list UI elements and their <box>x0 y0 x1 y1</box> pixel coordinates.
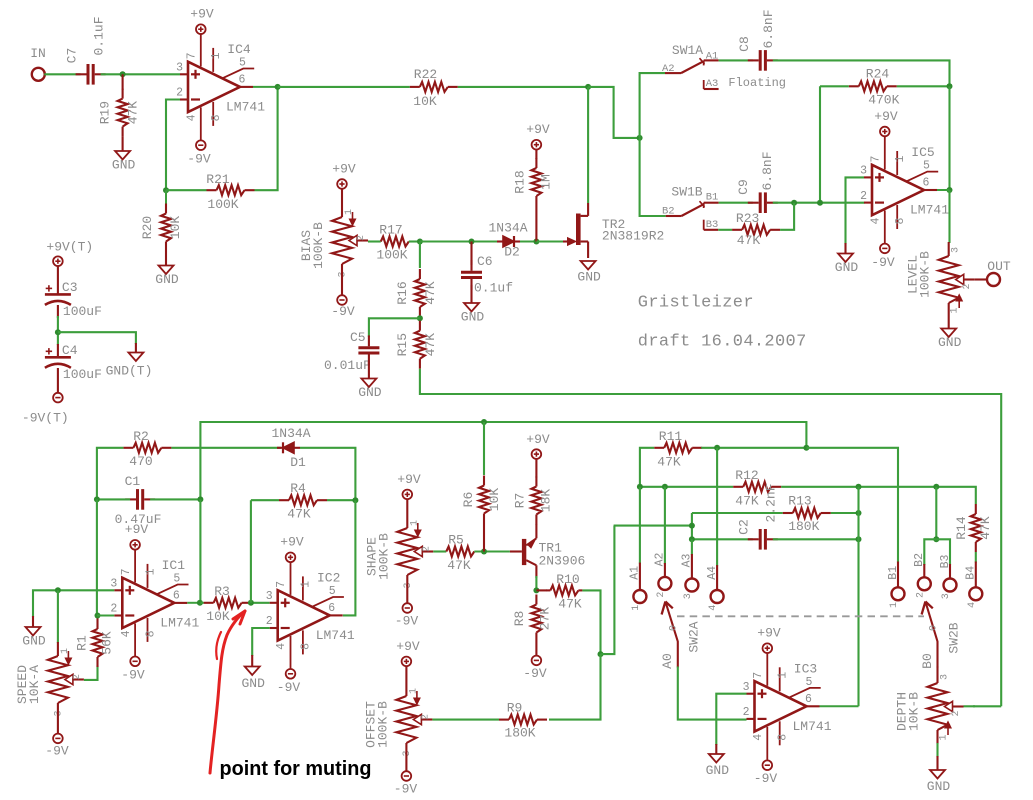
resistor R12 <box>733 468 781 509</box>
wire IC2 pin2 gnd <box>252 628 270 656</box>
resistor R23 <box>732 211 780 248</box>
svg-text:R4: R4 <box>290 481 306 496</box>
svg-text:A3: A3 <box>681 554 694 568</box>
wire R15 bottom long <box>420 369 1001 707</box>
junction IC4 out <box>275 84 281 90</box>
wire A4 drop <box>716 448 718 566</box>
svg-text:GND: GND <box>112 158 136 173</box>
svg-text:B2: B2 <box>913 553 926 567</box>
wire IC4 output <box>253 86 278 88</box>
wire R12 right <box>781 487 976 504</box>
svg-text:GND(T): GND(T) <box>106 364 153 379</box>
wire R24 left drop <box>819 86 821 202</box>
svg-text:1: 1 <box>144 568 157 575</box>
svg-text:IC2: IC2 <box>317 571 340 586</box>
svg-text:5: 5 <box>806 676 813 689</box>
label B3 <box>939 555 952 600</box>
svg-text:3: 3 <box>951 247 962 253</box>
svg-text:R21: R21 <box>206 172 230 187</box>
svg-text:3: 3 <box>941 593 952 599</box>
wire R10 right <box>582 590 600 654</box>
power -9V symbol (IC2 -9V) <box>277 669 301 695</box>
wire OFFSET wiper to R9 <box>432 719 499 721</box>
wire DEPTH wiper <box>964 705 976 707</box>
terminal B1 <box>892 587 905 600</box>
svg-text:1N34A: 1N34A <box>271 426 310 441</box>
junction R21/R20 <box>163 187 169 193</box>
svg-text:3: 3 <box>683 593 694 599</box>
wire R23 right up <box>780 203 794 230</box>
svg-text:7: 7 <box>870 156 883 163</box>
terminal A2 <box>658 577 671 590</box>
svg-text:6: 6 <box>923 177 930 190</box>
wire IC1 pin2 <box>97 614 114 616</box>
svg-text:+9V: +9V <box>125 522 149 537</box>
wire OFFSET bottom <box>405 743 407 771</box>
svg-text:4: 4 <box>870 217 883 224</box>
svg-text:point for muting: point for muting <box>220 757 372 780</box>
wire IC3 out stub <box>820 705 859 707</box>
wire R18 top stub <box>535 150 537 160</box>
ground (IC5 pin3 ground) <box>835 254 859 276</box>
wire DEPTH wiper to rail <box>973 705 1001 707</box>
svg-text:LM741: LM741 <box>910 203 949 218</box>
svg-text:8: 8 <box>144 630 157 637</box>
C2 labels <box>737 483 779 534</box>
svg-text:R20: R20 <box>140 216 155 239</box>
wire R17 to node <box>409 240 420 242</box>
svg-text:3: 3 <box>176 61 183 74</box>
svg-text:3: 3 <box>266 590 273 603</box>
svg-text:47K: 47K <box>287 507 311 522</box>
wire R8 bottom <box>535 643 537 656</box>
potentiometer DEPTH <box>895 674 964 741</box>
power +9V symbol (IC1 +9V) <box>125 522 149 550</box>
junction A1 <box>637 484 643 490</box>
svg-text:SW2A: SW2A <box>686 621 701 652</box>
wire TR1 collector <box>535 576 537 590</box>
svg-text:C9: C9 <box>736 179 751 195</box>
resistor R15 <box>395 321 438 369</box>
wire R7 top stub <box>535 459 537 478</box>
switch SW1B <box>662 185 719 218</box>
power +9V symbol (IC2 +9V) <box>280 535 304 563</box>
label B4 <box>965 566 978 608</box>
wire R12 row left <box>640 486 733 488</box>
svg-text:R12: R12 <box>735 468 758 483</box>
svg-text:100K-B: 100K-B <box>311 222 326 269</box>
svg-text:D2: D2 <box>504 245 520 260</box>
junction R13/IC3 fb <box>856 510 862 516</box>
wire long rail to R6 <box>200 421 484 423</box>
power -9V symbol (IC5 -9V) <box>871 244 895 270</box>
wire R3 left <box>200 602 203 604</box>
svg-text:A2: A2 <box>654 553 667 567</box>
C9 labels <box>736 151 775 194</box>
wire D1 right drop <box>300 448 355 500</box>
wire R3 right <box>252 602 270 604</box>
svg-text:R6: R6 <box>461 492 476 508</box>
svg-text:47K: 47K <box>737 233 761 248</box>
svg-text:10K: 10K <box>413 94 437 109</box>
resistor R20 <box>140 204 183 252</box>
svg-text:GND: GND <box>706 763 730 778</box>
junction C1 right <box>197 496 203 502</box>
wire IC4 pin2 loop <box>166 100 180 191</box>
resistor R13 <box>783 494 831 535</box>
svg-text:2N3819R2: 2N3819R2 <box>602 229 664 244</box>
svg-text:1: 1 <box>409 520 420 526</box>
label B1 <box>887 566 900 608</box>
svg-text:6.8nF: 6.8nF <box>761 9 776 48</box>
svg-text:-9V: -9V <box>395 614 419 629</box>
node IN label <box>30 46 46 61</box>
wire R4 branch <box>250 500 252 603</box>
junction B2/B3 top <box>933 484 939 490</box>
svg-text:47K: 47K <box>978 516 993 540</box>
resistor R18 <box>512 158 553 206</box>
wire B3 stub <box>949 564 951 579</box>
capacitor C4 <box>45 343 102 382</box>
svg-text:2: 2 <box>962 283 973 289</box>
junction IC1 out <box>197 600 203 606</box>
capacitor C9 <box>748 192 778 213</box>
svg-text:100uF: 100uF <box>63 304 102 319</box>
junction TR1/R8/R10 <box>533 587 539 593</box>
wire C3/C4 node <box>57 316 59 345</box>
svg-text:2: 2 <box>176 87 183 100</box>
svg-text:2: 2 <box>72 674 83 680</box>
power +9V symbol (IC5 +9V) <box>874 109 898 136</box>
svg-text:R14: R14 <box>954 516 969 540</box>
wire DEPTH bottom stub <box>936 730 938 744</box>
wire IC5 out stub <box>937 189 950 191</box>
terminal A1 <box>633 590 646 603</box>
svg-text:IC3: IC3 <box>794 662 817 677</box>
junction C7/R19/IC4.3 <box>120 71 126 77</box>
wire long IC1-out top rail <box>200 422 806 499</box>
svg-text:6: 6 <box>805 693 812 706</box>
wire IC1 pin3 <box>33 590 114 617</box>
resistor R4 <box>279 481 327 522</box>
wire R13 row <box>692 512 783 514</box>
wire SPEED top <box>57 590 59 643</box>
capacitor C8 <box>748 50 778 71</box>
svg-text:10K: 10K <box>168 216 183 240</box>
svg-text:+9V: +9V <box>280 535 304 550</box>
wire A4 stub <box>716 565 718 590</box>
svg-text:100uF: 100uF <box>63 367 102 382</box>
potentiometer BIAS <box>299 209 368 278</box>
svg-text:47K: 47K <box>126 101 141 125</box>
resistor R10 <box>546 572 582 612</box>
junction R17/R16 <box>417 239 423 245</box>
wire R4 right <box>327 499 355 501</box>
power +9V symbol (SHAPE +9V) <box>397 472 421 499</box>
wire R20 top stub <box>165 190 167 204</box>
svg-text:0.01uF: 0.01uF <box>324 358 371 373</box>
wire C1 left <box>97 498 130 500</box>
wire R14 bottom <box>975 552 977 563</box>
svg-text:SW1B: SW1B <box>671 185 702 200</box>
svg-text:LM741: LM741 <box>160 615 199 630</box>
svg-text:GND: GND <box>358 385 382 400</box>
svg-text:IN: IN <box>30 46 46 61</box>
svg-text:R1: R1 <box>75 635 90 651</box>
resistor R16 <box>395 269 438 317</box>
wire A1 drop <box>639 487 641 564</box>
switch SW2B wiper <box>920 602 962 669</box>
svg-text:47K: 47K <box>657 455 681 470</box>
wire C2 row left <box>692 538 753 540</box>
wire B0 to DEPTH <box>936 667 938 684</box>
wire BIAS top <box>341 189 343 217</box>
wire B1 to C9 <box>719 202 753 204</box>
svg-text:C4: C4 <box>62 343 78 358</box>
svg-text:C8: C8 <box>737 36 752 52</box>
svg-text:R8: R8 <box>512 611 527 627</box>
label A1 <box>629 566 642 611</box>
wire IC5 pin3 gnd <box>846 177 865 244</box>
wire R6 bottom <box>483 524 485 552</box>
ground (C6 ground) <box>461 303 485 325</box>
svg-text:100K-B: 100K-B <box>376 533 391 580</box>
ground (LEVEL ground) <box>938 329 962 351</box>
wire IC2 gnd stub <box>251 655 253 667</box>
title text <box>638 294 754 313</box>
svg-text:47K: 47K <box>423 333 438 357</box>
svg-text:-9V: -9V <box>871 255 895 270</box>
svg-text:4: 4 <box>708 605 719 611</box>
capacitor C7 <box>76 64 106 85</box>
transistor TR2 <box>563 203 664 258</box>
wire node to R16 <box>419 242 421 269</box>
svg-text:C6: C6 <box>477 254 493 269</box>
wire DEPTH gnd <box>936 743 938 757</box>
svg-text:6: 6 <box>328 602 335 615</box>
wire R19 to GND <box>122 137 124 151</box>
power +9V symbol (IC4 +9V) <box>190 7 214 34</box>
svg-text:1: 1 <box>344 209 355 215</box>
wire R18 bottom <box>535 206 537 242</box>
resistor R1 <box>75 619 115 667</box>
wire GND stub <box>32 616 34 627</box>
wire C1r to IC1 out <box>199 499 201 602</box>
diode D1 (1N34A) <box>271 426 310 470</box>
wire D2 to R18 node <box>520 240 536 242</box>
svg-text:4: 4 <box>275 643 288 650</box>
wire DEPTH gnd stub2 <box>936 756 938 770</box>
terminal B3 <box>944 579 957 592</box>
wire SPEED wiper to R1 <box>84 666 98 680</box>
svg-text:+9V: +9V <box>397 472 421 487</box>
svg-text:5: 5 <box>239 56 246 69</box>
power -9V symbol (R8 -9V) <box>523 656 547 681</box>
op-amp IC2 <box>266 562 355 669</box>
resistor R9 <box>499 701 547 741</box>
svg-text:6: 6 <box>173 589 180 602</box>
svg-text:+9V: +9V <box>190 7 214 22</box>
junction top rail <box>803 445 809 451</box>
svg-text:LM741: LM741 <box>226 99 265 114</box>
op-amp IC1 <box>110 549 199 656</box>
svg-text:2: 2 <box>266 615 273 628</box>
resistor R22 <box>410 67 458 109</box>
junction R24 drop <box>817 200 823 206</box>
svg-text:draft 16.04.2007: draft 16.04.2007 <box>638 332 807 351</box>
potentiometer SHAPE <box>364 520 433 589</box>
svg-text:5: 5 <box>923 160 930 173</box>
svg-text:IC5: IC5 <box>911 145 934 160</box>
resistor R19 <box>98 89 141 137</box>
resistor R17 <box>376 223 408 263</box>
terminal A4 <box>711 590 724 603</box>
wire B2/B3 branch <box>935 487 937 540</box>
wire R21 left <box>166 189 207 191</box>
svg-text:-9V: -9V <box>277 680 301 695</box>
wire SHAPE wiper to R5 <box>433 550 446 552</box>
junction C6 <box>469 239 475 245</box>
svg-text:0: 0 <box>669 625 680 631</box>
wire IC5 out to LEVEL <box>948 190 950 243</box>
wire gate <box>536 240 563 242</box>
svg-text:R19: R19 <box>98 101 113 124</box>
svg-text:180K: 180K <box>788 519 819 534</box>
svg-text:27K: 27K <box>537 607 552 631</box>
wire C6 to GND <box>470 285 472 303</box>
svg-text:100K-B: 100K-B <box>918 251 933 298</box>
svg-text:2: 2 <box>356 235 367 241</box>
svg-text:+9V: +9V <box>332 162 356 177</box>
wire row4 to node <box>601 526 615 655</box>
svg-text:B3: B3 <box>706 219 719 231</box>
svg-text:GND: GND <box>22 634 46 649</box>
svg-text:GND: GND <box>461 310 485 325</box>
svg-text:A2: A2 <box>662 63 675 75</box>
svg-text:R24: R24 <box>866 67 890 82</box>
junction R6 top <box>481 419 487 425</box>
junction R4/D1 <box>352 497 358 503</box>
svg-text:2: 2 <box>951 710 962 716</box>
resistor R2 <box>123 429 171 469</box>
wire C4 to -9V(T) <box>57 368 59 393</box>
svg-text:2.2nF: 2.2nF <box>764 483 779 522</box>
junction SPEED branch <box>55 587 61 593</box>
svg-text:R15: R15 <box>395 333 410 356</box>
annotation text 'point for muting' <box>220 757 372 780</box>
resistor R5 <box>446 533 474 574</box>
capacitor C6 <box>461 254 513 296</box>
svg-text:100K-B: 100K-B <box>375 701 390 748</box>
svg-text:8: 8 <box>894 217 907 224</box>
svg-text:10K: 10K <box>206 609 230 624</box>
wire A0 to IC3 pin2 <box>678 667 747 720</box>
svg-text:100K: 100K <box>207 197 238 212</box>
svg-text:-9V(T): -9V(T) <box>22 411 69 426</box>
label A3 <box>681 554 694 600</box>
power +9V symbol (OFFSET +9V) <box>396 639 420 666</box>
power +9V symbol (R7 +9V) <box>526 432 550 459</box>
wire IC3 pin3 gnd <box>716 694 746 745</box>
wire C1 right <box>150 498 200 500</box>
switch SW1A <box>662 43 719 75</box>
power -9V symbol (SHAPE -9V) <box>395 603 419 628</box>
power +9V symbol (IC3 +9V) <box>757 626 781 654</box>
svg-text:B0: B0 <box>920 653 935 669</box>
svg-text:+9V: +9V <box>757 626 781 641</box>
svg-text:R11: R11 <box>659 429 683 444</box>
svg-text:6: 6 <box>239 73 246 86</box>
ground (C5 ground) <box>358 379 382 401</box>
power -9V symbol (IC1 -9V) <box>121 657 145 683</box>
ground (TR2 ground) <box>577 261 601 285</box>
svg-text:7: 7 <box>752 672 765 679</box>
junction C1 left <box>94 496 100 502</box>
svg-text:-9V: -9V <box>523 666 547 681</box>
svg-text:18K: 18K <box>538 489 553 513</box>
resistor R24 <box>849 67 900 108</box>
junction R11/A4 <box>714 445 720 451</box>
wire R2 left drop <box>97 448 124 500</box>
subtitle text <box>638 332 807 351</box>
svg-text:IC1: IC1 <box>162 558 186 573</box>
wire LEVEL wiper to OUT <box>975 278 988 280</box>
svg-text:56K: 56K <box>100 631 115 655</box>
svg-text:LM741: LM741 <box>792 719 831 734</box>
wire A2 stub <box>664 563 666 577</box>
junction R5/R6/TR1 base <box>481 549 487 555</box>
wire C6 top <box>470 242 472 265</box>
wire SPEED stub <box>57 642 59 656</box>
svg-text:-9V: -9V <box>754 771 778 786</box>
wire R21 right to IC4 out <box>255 87 278 190</box>
transistor TR1 <box>510 524 585 578</box>
op-amp IC5 <box>860 137 949 244</box>
resistor R6 <box>461 476 502 524</box>
node A3 Floating <box>704 76 786 90</box>
svg-text:1: 1 <box>210 52 223 59</box>
wire A1 stub <box>639 563 641 591</box>
wire main to SW corner <box>588 87 640 138</box>
svg-text:47K: 47K <box>423 281 438 305</box>
wire node down to R9 <box>549 654 601 720</box>
svg-text:GND: GND <box>835 260 859 275</box>
annotation arrow (red) <box>210 611 245 773</box>
wire node to C5 <box>369 318 420 337</box>
junction TR2 drain branch <box>585 84 591 90</box>
op-amp IC3 <box>743 653 832 760</box>
wire to B3 <box>936 539 950 565</box>
potentiometer OFFSET <box>363 688 432 757</box>
svg-text:B1: B1 <box>887 566 900 580</box>
terminal B4 <box>969 587 982 600</box>
ground (GND(T)) <box>106 353 153 379</box>
svg-text:C1: C1 <box>125 474 141 489</box>
svg-text:B1: B1 <box>706 192 719 204</box>
wire B3 to R23 <box>718 229 732 231</box>
wire R24 left <box>820 85 849 87</box>
wire R11 left <box>640 448 654 487</box>
svg-text:470K: 470K <box>868 93 899 108</box>
svg-text:SW2B: SW2B <box>947 622 962 653</box>
wire R19 top stub <box>122 74 124 90</box>
svg-text:A1: A1 <box>706 51 719 63</box>
wire OFFSET top <box>405 666 407 696</box>
wire IC3 gnd stub <box>715 744 717 754</box>
capacitor C5 <box>324 330 379 373</box>
svg-text:+9V(T): +9V(T) <box>46 240 93 255</box>
wire SPEED bottom <box>57 703 59 734</box>
